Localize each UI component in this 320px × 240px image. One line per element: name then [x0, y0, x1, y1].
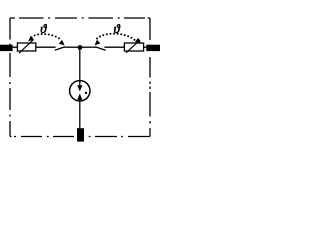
- terminal (left phase terminal): [0, 45, 13, 51]
- wire: left terminal to left varistor: [12, 46, 18, 48]
- terminal (bottom, earth terminal): [77, 128, 84, 141]
- wire: junction down to spark gap: [79, 47, 81, 81]
- spark gap (gas discharge tube): [70, 81, 90, 101]
- terminal (right phase terminal): [146, 45, 160, 51]
- thermal disconnect switch (right, blade): [95, 47, 105, 51]
- varistor (left, with thermal disconnector): [17, 40, 35, 53]
- wire: right junction to right switch: [80, 46, 96, 48]
- varistor (right, with thermal disconnector): [124, 40, 143, 53]
- thermal disconnect switch (left, blade): [55, 47, 65, 51]
- wire: left switch to center junction: [64, 46, 80, 48]
- thermal response arc (left, dotted with arrowheads): [28, 34, 64, 45]
- wire: left varistor to left switch: [36, 46, 56, 48]
- enclosure boundary (dash-dot device outline): [10, 18, 150, 137]
- thermal response arc (right, dotted with arrowheads): [95, 34, 141, 46]
- wire: right varistor to right terminal: [143, 46, 147, 48]
- label theta (right): [114, 24, 120, 33]
- label theta (left): [41, 24, 47, 33]
- wire: spark gap to bottom terminal: [79, 101, 81, 130]
- node: center junction: [78, 45, 83, 50]
- wire: right switch to right varistor: [104, 46, 124, 48]
